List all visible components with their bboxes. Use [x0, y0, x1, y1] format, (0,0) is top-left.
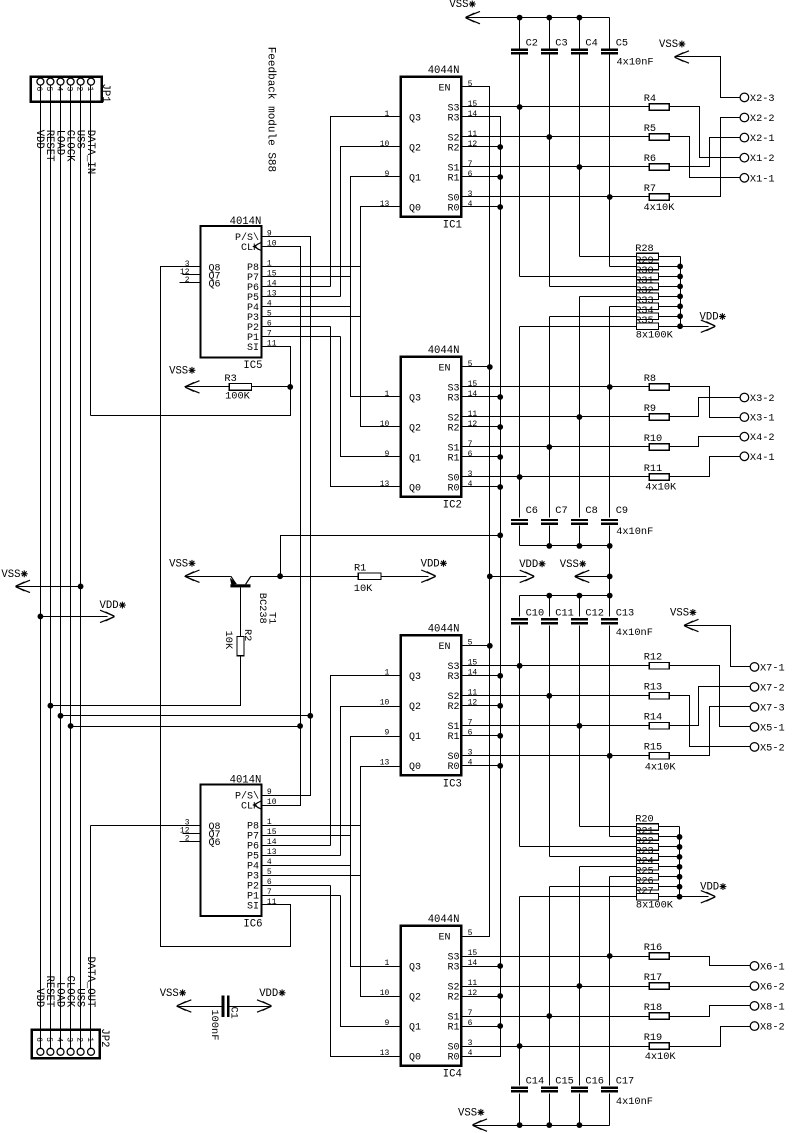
- resistor R9 / pin X3-2: [462, 393, 775, 420]
- svg-text:6: 6: [468, 170, 473, 179]
- svg-text:Q2: Q2: [409, 702, 421, 713]
- svg-text:C5: C5: [616, 37, 628, 49]
- capacitor C4: [571, 37, 598, 54]
- svg-text:X2-1: X2-1: [750, 133, 775, 145]
- svg-text:R17: R17: [644, 972, 663, 984]
- svg-text:13: 13: [380, 480, 390, 489]
- wire column x=609.7: [609, 626, 611, 837]
- power VDD* (R1): [421, 558, 447, 582]
- junction S column: [517, 663, 523, 669]
- svg-text:11: 11: [468, 689, 478, 698]
- wire IC6.Q6 stub: [180, 841, 201, 843]
- junction IC3.R3: [497, 673, 503, 679]
- wire USS bus: [80, 85, 82, 1049]
- svg-text:IC2: IC2: [443, 500, 462, 512]
- svg-text:C9: C9: [616, 505, 628, 517]
- svg-text:3: 3: [468, 190, 473, 199]
- svg-text:5: 5: [468, 80, 473, 89]
- svg-text:X1-1: X1-1: [750, 173, 775, 185]
- wire R3 right: [252, 386, 291, 388]
- wire IC3.Q1-P4: [351, 737, 401, 967]
- power VSS* mid: [560, 559, 590, 583]
- wire VDD bus tap: [41, 616, 108, 618]
- junction IC3.R2: [497, 703, 503, 709]
- wire column x=519.6: [519, 1094, 521, 1126]
- wire column x=609.7: [609, 55, 611, 267]
- svg-text:Q2: Q2: [409, 143, 421, 154]
- svg-text:X4-1: X4-1: [750, 452, 775, 464]
- capacitor C7: [541, 505, 568, 525]
- wire IC2.R1 stub: [462, 456, 501, 458]
- svg-text:2: 2: [74, 87, 83, 92]
- svg-text:X6-1: X6-1: [760, 961, 785, 973]
- label USS (JP2): [73, 988, 85, 1007]
- svg-text:13: 13: [380, 200, 390, 209]
- junction S column: [546, 444, 552, 450]
- wire column x=579.4: [579, 55, 581, 257]
- svg-text:10: 10: [380, 140, 390, 149]
- resistor R14 / pin X7-2: [462, 682, 785, 729]
- svg-text:6: 6: [34, 1037, 43, 1042]
- power VSS* (C1): [160, 988, 192, 1012]
- label VDD (JP1): [33, 130, 45, 149]
- junction VSS mid: [607, 574, 613, 580]
- svg-text:2: 2: [185, 276, 190, 285]
- junction reset link: [497, 532, 503, 538]
- svg-text:9: 9: [384, 450, 389, 459]
- svg-text:R0: R0: [447, 483, 459, 494]
- capacitor C2: [511, 37, 538, 54]
- power VSS* left: [1, 569, 30, 593]
- svg-text:R14: R14: [644, 712, 663, 724]
- svg-text:15: 15: [468, 659, 478, 668]
- svg-text:6: 6: [468, 729, 473, 738]
- svg-text:8x100K: 8x100K: [636, 900, 674, 912]
- svg-text:Q2: Q2: [409, 423, 421, 434]
- wire T1 collector: [251, 576, 359, 578]
- wire LOAD bus: [60, 85, 62, 1049]
- svg-text:5: 5: [44, 1037, 53, 1042]
- junction CLOCK bus: [68, 723, 74, 729]
- svg-text:JP2: JP2: [98, 1028, 110, 1047]
- svg-text:13: 13: [380, 759, 390, 768]
- svg-text:R3: R3: [447, 113, 459, 124]
- svg-text:R0: R0: [447, 1052, 459, 1063]
- svg-text:4x10nF: 4x10nF: [617, 57, 654, 69]
- svg-text:10: 10: [380, 989, 390, 998]
- svg-text:1: 1: [85, 87, 94, 92]
- wire IC5.Q8: [161, 267, 291, 947]
- wire top VSS rail: [466, 17, 610, 19]
- wire IC5.P6: [262, 286, 331, 288]
- wire R chain: [462, 117, 501, 1057]
- svg-text:R4: R4: [644, 93, 656, 105]
- wire column x=549.3: [549, 526, 551, 546]
- resistor network R28-R35: [520, 243, 726, 341]
- svg-text:R5: R5: [644, 123, 656, 135]
- svg-text:VDD: VDD: [519, 559, 538, 571]
- svg-text:R18: R18: [644, 1002, 663, 1014]
- wire P1-IC2.Q1: [341, 337, 401, 457]
- junction S column: [577, 723, 583, 729]
- svg-text:Q1: Q1: [409, 732, 421, 743]
- junction IC1.R0: [497, 204, 503, 210]
- svg-text:15: 15: [468, 380, 478, 389]
- junction bottom rail: [546, 1122, 552, 1128]
- wire T1 base: [240, 588, 242, 637]
- svg-text:R8: R8: [644, 373, 656, 385]
- wire IC3.Q0-P3: [361, 767, 401, 997]
- junction IC4.R2: [497, 993, 503, 999]
- junction R3/SI: [287, 384, 293, 390]
- svg-text:R0: R0: [447, 203, 459, 214]
- label RESET (JP1): [43, 130, 55, 162]
- svg-text:Q6: Q6: [209, 838, 221, 849]
- wire column x=549.3: [549, 887, 551, 1086]
- junction S column: [546, 134, 552, 140]
- svg-text:X1-2: X1-2: [750, 153, 775, 165]
- op-amp IC2 (4044N latch): [380, 345, 478, 512]
- svg-text:C2: C2: [526, 37, 538, 49]
- wire IC5.P2: [262, 326, 331, 328]
- junction IC3.R1: [497, 733, 503, 739]
- wire column x=579.4: [579, 526, 581, 546]
- svg-text:R27: R27: [635, 885, 654, 897]
- label LOAD (JP2): [53, 982, 65, 1007]
- junction top rail: [546, 15, 552, 21]
- resistor R7 / pin X2-2: [462, 113, 775, 214]
- resistor R13 / pin X5-2: [462, 682, 785, 755]
- wire IC6.P6: [262, 845, 331, 847]
- resistor R12 / pin X5-1: [462, 652, 785, 735]
- wire column x=549.3: [549, 626, 551, 857]
- capacitor C11: [541, 607, 574, 624]
- svg-text:DATA_OUT: DATA_OUT: [84, 956, 96, 1007]
- junction IC1.R2: [497, 144, 503, 150]
- svg-text:R2: R2: [447, 143, 459, 154]
- svg-text:X4-2: X4-2: [750, 432, 775, 444]
- svg-text:VDD: VDD: [259, 988, 278, 1000]
- power VSS* top: [449, 0, 480, 24]
- label RESET (JP2): [43, 976, 55, 1008]
- capacitor C12: [571, 607, 604, 624]
- junction S column: [577, 983, 583, 989]
- svg-text:X2-2: X2-2: [750, 113, 775, 125]
- svg-text:VDD: VDD: [421, 558, 440, 570]
- svg-text:C14: C14: [526, 1075, 545, 1087]
- svg-text:IC3: IC3: [443, 778, 462, 790]
- svg-text:1: 1: [384, 959, 389, 968]
- svg-text:7: 7: [468, 719, 473, 728]
- svg-text:Feedback module S88: Feedback module S88: [264, 47, 276, 172]
- op-amp IC5 (4014N shift register): [180, 216, 277, 372]
- wire IC1.R1 stub: [462, 176, 501, 178]
- wire column x=549.3: [549, 55, 551, 287]
- junction bottom rail: [577, 1122, 583, 1128]
- wire IC3.R0 stub: [462, 765, 501, 767]
- svg-text:14: 14: [468, 669, 478, 678]
- capacitor C15: [541, 1075, 574, 1092]
- wire IC2.R0 stub: [462, 486, 501, 488]
- wire LOAD row: [61, 715, 311, 717]
- svg-text:C8: C8: [585, 505, 597, 517]
- svg-text:R35: R35: [635, 315, 654, 327]
- junction S column: [577, 414, 583, 420]
- svg-text:X2-3: X2-3: [750, 93, 775, 105]
- wire IC3.R3 stub: [462, 675, 501, 677]
- svg-text:3: 3: [64, 87, 73, 92]
- svg-text:4: 4: [468, 480, 473, 489]
- wire column x=519.6: [519, 55, 521, 277]
- svg-text:R9: R9: [644, 403, 656, 415]
- wire column x=609.7: [609, 877, 611, 1086]
- connector JP2: [32, 1028, 110, 1058]
- wire column x=549.3: [549, 317, 551, 518]
- junction C10 rail: [577, 593, 583, 599]
- power VSS* bottom: [458, 1107, 487, 1131]
- junction S column: [546, 1013, 552, 1019]
- svg-text:VSS: VSS: [449, 0, 468, 11]
- wire column x=549.3: [549, 1094, 551, 1126]
- svg-text:EN: EN: [438, 642, 450, 653]
- label VDD (JP2): [33, 988, 45, 1007]
- wire column x=549.3: [549, 596, 551, 617]
- capacitor C9: [601, 505, 628, 525]
- wire IC6.P5: [262, 855, 341, 857]
- svg-text:X3-1: X3-1: [750, 413, 775, 425]
- svg-text:IC4: IC4: [443, 1069, 462, 1081]
- svg-text:Q0: Q0: [409, 203, 421, 214]
- svg-text:IC1: IC1: [443, 220, 462, 232]
- svg-text:X7-3: X7-3: [760, 702, 785, 714]
- svg-text:9: 9: [384, 170, 389, 179]
- junction C6 rail: [607, 543, 613, 549]
- junction RESET bus: [48, 703, 54, 709]
- svg-text:R1: R1: [447, 453, 459, 464]
- resistor network R20-R27: [520, 814, 727, 912]
- svg-text:EN: EN: [438, 932, 450, 943]
- resistor R19 / pin X8-2: [462, 1022, 785, 1063]
- svg-text:C11: C11: [555, 607, 574, 619]
- wire IC5.P4: [262, 306, 351, 308]
- wire T1 emitter: [185, 576, 231, 578]
- op-amp IC3 (4044N latch): [380, 624, 478, 791]
- svg-text:R1: R1: [354, 563, 366, 575]
- wire VSS mid: [575, 576, 610, 578]
- svg-text:R28: R28: [635, 243, 654, 255]
- wire IC2.EN stub: [462, 366, 490, 368]
- svg-text:C3: C3: [555, 37, 567, 49]
- wire IC3.R2 stub: [462, 705, 501, 707]
- svg-text:1: 1: [384, 390, 389, 399]
- wire CLOCK bus: [70, 85, 72, 1049]
- label DATA_OUT (JP2): [84, 956, 96, 1007]
- resistor R18 / pin X8-1: [462, 1001, 785, 1019]
- svg-text:14: 14: [468, 390, 478, 399]
- junction bottom rail: [517, 1122, 523, 1128]
- capacitor C1: [208, 995, 240, 1040]
- wire CLOCK row: [71, 726, 301, 728]
- label DATA_IN (JP1): [84, 130, 96, 175]
- svg-text:X3-2: X3-2: [750, 393, 775, 405]
- resistor R17 / pin X6-2: [462, 972, 785, 994]
- svg-text:Q1: Q1: [409, 453, 421, 464]
- junction LOAD/PS: [307, 713, 313, 719]
- wire IC6.SI stub: [262, 904, 291, 906]
- junction IC4.R1: [497, 1023, 503, 1029]
- junction IC2.R1: [497, 454, 503, 460]
- wire column x=519.6: [519, 18, 521, 49]
- title: Feedback module S88: [264, 47, 276, 172]
- label CLOCK (JP1): [63, 130, 75, 162]
- svg-text:6: 6: [468, 450, 473, 459]
- wire reset link: [281, 536, 501, 577]
- label 4x10nF (C14-C17): [616, 1096, 653, 1108]
- svg-text:R11: R11: [644, 463, 663, 475]
- svg-text:Q6: Q6: [209, 279, 221, 290]
- svg-text:C4: C4: [585, 37, 597, 49]
- resistor R2: [222, 629, 253, 656]
- wire IC6.Q7 stub: [183, 833, 201, 835]
- svg-text:R16: R16: [644, 942, 663, 954]
- svg-text:R0: R0: [447, 762, 459, 773]
- svg-text:7: 7: [468, 160, 473, 169]
- wire column x=579.4: [579, 867, 581, 1086]
- svg-text:4: 4: [54, 1037, 63, 1042]
- svg-text:5: 5: [468, 639, 473, 648]
- wire IC6.P1: [262, 895, 341, 897]
- wire EN chain: [462, 87, 490, 937]
- svg-text:VSS: VSS: [659, 39, 678, 51]
- svg-text:R20: R20: [635, 814, 654, 826]
- resistor R5 / pin X1-1: [462, 123, 775, 186]
- junction S column: [517, 474, 523, 480]
- label USS (JP1): [73, 130, 85, 149]
- svg-text:C6: C6: [526, 505, 538, 517]
- svg-text:10: 10: [380, 420, 390, 429]
- wire P/S chain: [262, 237, 311, 796]
- svg-text:IC5: IC5: [243, 360, 262, 372]
- svg-text:11: 11: [468, 130, 478, 139]
- power VDD* (C1): [257, 988, 285, 1012]
- capacitor C17: [601, 1075, 634, 1092]
- svg-text:R2: R2: [447, 423, 459, 434]
- svg-text:100K: 100K: [225, 390, 251, 402]
- wire IC6.P2: [262, 885, 331, 887]
- wire IC5.SI stub: [262, 347, 291, 387]
- resistor R8 / pin X3-1: [462, 373, 775, 425]
- svg-text:4x10K: 4x10K: [644, 202, 676, 214]
- svg-text:Q3: Q3: [409, 113, 421, 124]
- svg-text:3: 3: [468, 749, 473, 758]
- op-amp IC4 (4044N latch): [380, 914, 478, 1081]
- junction IC2.EN: [487, 364, 493, 370]
- wire R2 to RESET: [240, 656, 242, 706]
- wire column x=519.6: [519, 526, 521, 546]
- svg-text:USS: USS: [73, 130, 85, 149]
- svg-text:C13: C13: [616, 607, 635, 619]
- svg-text:Q1: Q1: [409, 1022, 421, 1033]
- wire column x=579.4: [579, 18, 581, 49]
- op-amp IC6 (4014N shift register): [180, 774, 277, 930]
- wire VSS to USS bus: [16, 586, 81, 588]
- svg-text:1: 1: [384, 110, 389, 119]
- svg-text:R2: R2: [447, 992, 459, 1003]
- svg-text:12: 12: [468, 420, 478, 429]
- wire P1-IC4.Q1: [341, 896, 401, 1027]
- svg-text:Q3: Q3: [409, 393, 421, 404]
- wire IC6.P7: [262, 835, 351, 837]
- wire DATA_OUT: [90, 826, 92, 1049]
- svg-text:12: 12: [468, 699, 478, 708]
- svg-text:R19: R19: [644, 1032, 663, 1044]
- label LOAD (JP1): [53, 130, 65, 155]
- junction S column: [607, 384, 613, 390]
- svg-text:VSS: VSS: [458, 1107, 477, 1119]
- power VSS* (R3): [169, 365, 199, 393]
- wire DATA_IN: [90, 85, 92, 416]
- wire C6-C9 rail: [520, 545, 610, 547]
- resistor R6 / pin X2-1: [462, 133, 775, 170]
- pin X7-1: [750, 662, 785, 674]
- svg-text:R15: R15: [644, 742, 663, 754]
- wire P2-IC4.Q0: [331, 886, 401, 1057]
- wire RESET bus: [50, 85, 52, 1049]
- wire IC6.P3: [262, 875, 361, 877]
- wire IC1.Q1-P4: [351, 177, 401, 397]
- svg-text:4: 4: [468, 759, 473, 768]
- svg-text:SI: SI: [247, 343, 259, 354]
- junction EN mid: [487, 574, 493, 580]
- svg-text:6: 6: [34, 87, 43, 92]
- svg-text:X7-2: X7-2: [760, 682, 785, 694]
- svg-text:R1: R1: [447, 1022, 459, 1033]
- svg-text:USS: USS: [73, 988, 85, 1007]
- svg-text:VSS: VSS: [160, 988, 179, 1000]
- wire IC3.Q3-P6: [331, 676, 401, 846]
- capacitor C8: [571, 505, 598, 525]
- svg-text:7: 7: [468, 440, 473, 449]
- svg-text:R3: R3: [447, 393, 459, 404]
- svg-text:3: 3: [468, 470, 473, 479]
- svg-text:11: 11: [267, 898, 277, 907]
- wire C1 left: [177, 1006, 222, 1008]
- svg-text:Q1: Q1: [409, 173, 421, 184]
- svg-text:X8-2: X8-2: [760, 1022, 785, 1034]
- resistor R16 / pin X6-1: [462, 942, 785, 974]
- wire column x=519.6: [519, 626, 521, 847]
- wire IC4.R2 stub: [462, 996, 501, 998]
- svg-text:R3: R3: [224, 373, 236, 385]
- capacitor C6: [511, 505, 538, 525]
- resistor R15 / pin X7-3: [462, 702, 785, 773]
- junction CLOCK/CLK: [297, 723, 303, 729]
- wire column x=519.6: [519, 327, 521, 518]
- svg-text:VDD: VDD: [100, 600, 119, 612]
- junction VDD tap: [38, 614, 44, 620]
- svg-text:VSS: VSS: [670, 607, 689, 619]
- svg-text:4x10K: 4x10K: [645, 761, 677, 773]
- wire IC1.R2 stub: [462, 146, 501, 148]
- svg-text:R1: R1: [447, 173, 459, 184]
- junction USS/VSS: [78, 584, 84, 590]
- wire column x=519.6: [519, 897, 521, 1086]
- junction IC4.R3: [497, 963, 503, 969]
- svg-text:Q0: Q0: [409, 762, 421, 773]
- svg-text:10K: 10K: [222, 631, 234, 650]
- junction S column: [546, 693, 552, 699]
- svg-text:R7: R7: [644, 183, 656, 195]
